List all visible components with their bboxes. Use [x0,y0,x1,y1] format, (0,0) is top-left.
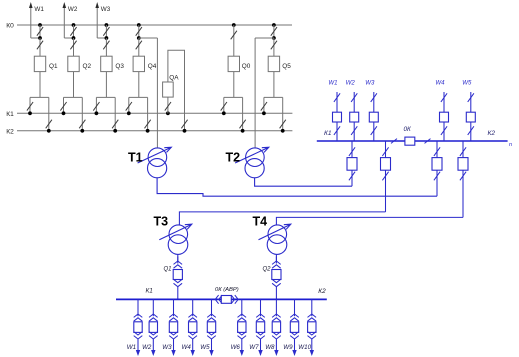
disconnector Q4 to K1 [128,97,130,113]
junction Q1 at jog [38,36,42,40]
svg-text:W2: W2 [68,6,78,13]
breaker Q1 [34,56,45,71]
svg-text:К0: К0 [6,23,14,30]
bus tie QK AVR [215,295,218,304]
svg-text:W5: W5 [462,79,472,86]
junction Q5 on K0 [272,23,276,27]
junction Q0-K1 [222,111,226,115]
junction Q2 on K0 [72,23,76,27]
junction Q0-K2 [241,129,245,133]
junction Q5-K1 [262,111,266,115]
breaker T2 link [347,158,357,171]
incoming line W3 [96,8,98,38]
transformer T2 [245,148,264,178]
outgoing feeder W1 0.4kV [137,299,139,316]
breaker Q2 [68,56,79,71]
breaker W4 0.4kV [189,322,197,333]
breaker W5 0.4kV [207,322,215,333]
svg-text:К1: К1 [324,130,332,137]
svg-text:Q0: Q0 [242,63,251,70]
disconnector Q4 upper [138,25,140,38]
junction Q3-K1 [95,111,99,115]
transfer bar Q5 [264,96,283,98]
breaker W3 0.4kV [169,322,177,333]
disconnector Q5 upper [273,25,275,38]
svg-text:W7: W7 [249,344,259,351]
breaker Q5 [268,56,279,71]
svg-text:Q4: Q4 [148,63,157,70]
outgoing feeder W6 0.4kV [241,299,243,316]
wire T4 LV [275,255,277,262]
breaker QA [163,82,174,97]
disconnector Q3 to K1 [95,97,97,113]
disconnector Q1 lower [39,38,41,56]
svg-text:W4: W4 [435,79,445,86]
bus K1-K2 0.4kV [116,298,327,300]
svg-text:Q1: Q1 [164,266,172,272]
svg-text:W1: W1 [34,6,44,13]
outgoing feeder W10 0.4kV [311,299,313,316]
outgoing feeder W3 0.4kV [173,299,175,316]
wire Q5 tap to T2 feed [255,37,274,39]
disconnector QA [167,97,169,113]
disconnect drop T2 link [351,141,353,186]
withdrawable breaker T4 LV [275,257,277,264]
transformer T3 [168,225,188,255]
disconnector QA to K2 [181,120,187,129]
wire W1 jog [31,37,40,39]
svg-text:К1: К1 [146,288,154,295]
outgoing feeder W9 0.4kV [294,299,296,316]
wire QA loop [168,50,185,131]
svg-text:Q1: Q1 [49,63,58,70]
svg-text:W1: W1 [127,344,136,351]
svg-text:W2: W2 [346,79,356,86]
svg-text:W10: W10 [298,344,311,351]
disconnector Q1 upper [39,25,41,38]
wire Q4 tap to T1 feed [139,37,158,39]
breaker Q4 [133,56,144,71]
wire T2 LV [255,178,352,186]
breaker W1 0.4kV [134,322,142,333]
breaker W2 0.4kV [149,322,157,333]
breaker W9 0.4kV [290,322,298,333]
incoming line W2 [63,8,65,38]
breaker T3 link [381,158,391,171]
junction Q5 tap [272,36,276,40]
svg-text:T2: T2 [226,150,241,164]
svg-text:0К (АВР): 0К (АВР) [215,287,239,293]
disconnector Q5 to K2 [282,97,284,130]
svg-text:W5: W5 [200,344,210,351]
disconnector Q1 to K2 [48,97,50,130]
breaker W5 10kV [466,112,475,122]
feeder W1 10kV [336,92,338,141]
disconnector Q3 upper [105,25,107,38]
junction Q3-K2 [113,129,117,133]
transfer bar Q3 [96,96,115,98]
breaker Q0 [228,56,239,71]
wire T3 LV [177,254,179,261]
junction Q2-K1 [62,111,66,115]
junction Q1-K2 [47,129,51,133]
feeder W3 10kV [373,92,375,141]
disconnector Q3 lower [105,38,107,56]
disconnector Q2 to K1 [63,97,65,113]
bus K0 [17,24,292,26]
svg-text:Q2: Q2 [263,266,272,272]
transfer bar Q4 [129,96,148,98]
breaker W4 10kV [440,112,449,122]
outgoing feeder W5 0.4kV [211,299,213,316]
svg-text:W1: W1 [328,79,337,86]
incoming line W1 [30,8,32,38]
wire Q3 drop to transfer bar [105,72,107,98]
wire Q4 drop to transfer bar [138,72,140,98]
wire to T3 [179,212,385,225]
disconnector Q4 lower [138,38,140,56]
transfer bar Q0 [224,96,243,98]
wire Q5 drop to transfer bar [273,72,275,98]
breaker W1 10kV [333,112,342,122]
breaker Q3 [101,56,112,71]
disconnect drop T3 link [385,141,387,212]
svg-text:Q2: Q2 [83,63,92,70]
junction Q4 tap [137,36,141,40]
svg-text:W3: W3 [365,79,375,86]
disconnector Q4 to K2 [147,97,149,130]
transformer T1 [148,148,167,178]
junction Q2 at jog [72,36,76,40]
svg-text:W4: W4 [182,344,192,351]
junction QA-K2 [183,129,187,133]
svg-text:Q5: Q5 [282,63,291,70]
wire W2 jog [64,37,73,39]
svg-text:W6: W6 [231,344,241,351]
wire T2 HV feed [254,38,256,148]
disconnector Q2 to K2 [81,97,83,130]
disconnector Q0 [233,25,235,56]
disconnector Q0 to K1 [223,97,225,113]
transfer bar Q1 [30,96,49,98]
svg-text:W2: W2 [142,344,152,351]
junction Q4-K2 [146,129,150,133]
bus tie QK [391,139,397,144]
junction Q1-K1 [28,111,32,115]
wire Q2 drop to transfer bar [73,72,75,98]
svg-text:0К: 0К [404,126,413,133]
wire T1 LV [157,178,437,196]
breaker W7 0.4kV [256,322,264,333]
breaker W6 0.4kV [238,322,246,333]
disconnector Q2 upper [73,25,75,38]
disconnector Q3 to K2 [114,97,116,130]
breaker W10 0.4kV [308,322,316,333]
transformer T4 [267,225,287,255]
svg-text:T1: T1 [128,150,143,164]
junction Q4 on K0 [137,23,141,27]
svg-text:T3: T3 [154,214,169,228]
svg-text:W9: W9 [283,344,293,351]
svg-text:К2: К2 [488,130,496,137]
bus K1 [17,112,292,114]
svg-text:W3: W3 [101,6,111,13]
junction Q4-K1 [127,111,131,115]
svg-text:К2: К2 [6,129,14,136]
disconnector Q2 lower [73,38,75,56]
feeder W5 10kV [470,92,472,141]
junction Q0 on K0 [232,23,236,27]
disconnector Q1 to K1 [29,97,31,113]
svg-text:T4: T4 [253,214,268,228]
wire to T4 [276,217,463,225]
outgoing feeder W4 0.4kV [192,299,194,316]
breaker W2 10kV [350,112,359,122]
transfer bar Q2 [64,96,83,98]
bus K2 [17,130,292,132]
bus K1-K2 10kV [317,140,508,142]
feeder W2 10kV [353,92,355,141]
junction Q5-K2 [281,129,285,133]
junction Q3 on K0 [105,23,109,27]
disconnector Q0 to K2 [242,97,244,130]
outgoing feeder W2 0.4kV [152,299,154,316]
outgoing feeder W7 0.4kV [260,299,262,316]
feeder W4 10kV [443,92,445,141]
disconnector Q5 lower [273,38,275,56]
disconnect drop T4 link [462,141,464,217]
svg-text:W8: W8 [265,344,275,351]
junction Q3 at jog [105,36,109,40]
junction Q1 on K0 [38,23,42,27]
junction Q2-K2 [80,129,84,133]
junction QA on K1 [166,111,170,115]
disconnector Q5 to K1 [263,97,265,113]
disconnect drop T1 link [436,141,438,196]
svg-text:n: n [509,142,512,148]
withdrawable breaker T3 LV [177,257,179,264]
svg-text:К1: К1 [6,111,14,118]
breaker T1 link [432,158,442,171]
wire Q1 drop to transfer bar [39,72,41,98]
wire Q0 drop to transfer bar [233,72,235,98]
svg-text:К2: К2 [318,288,326,295]
wire T1 HV feed [156,38,158,148]
breaker W8 0.4kV [272,322,280,333]
svg-text:Q3: Q3 [115,63,124,70]
breaker T4 link [458,158,468,171]
breaker W3 10kV [369,112,378,122]
outgoing feeder W8 0.4kV [275,299,277,316]
svg-text:QА: QА [169,74,179,81]
wire W3 jog [97,37,106,39]
svg-text:W3: W3 [162,344,172,351]
